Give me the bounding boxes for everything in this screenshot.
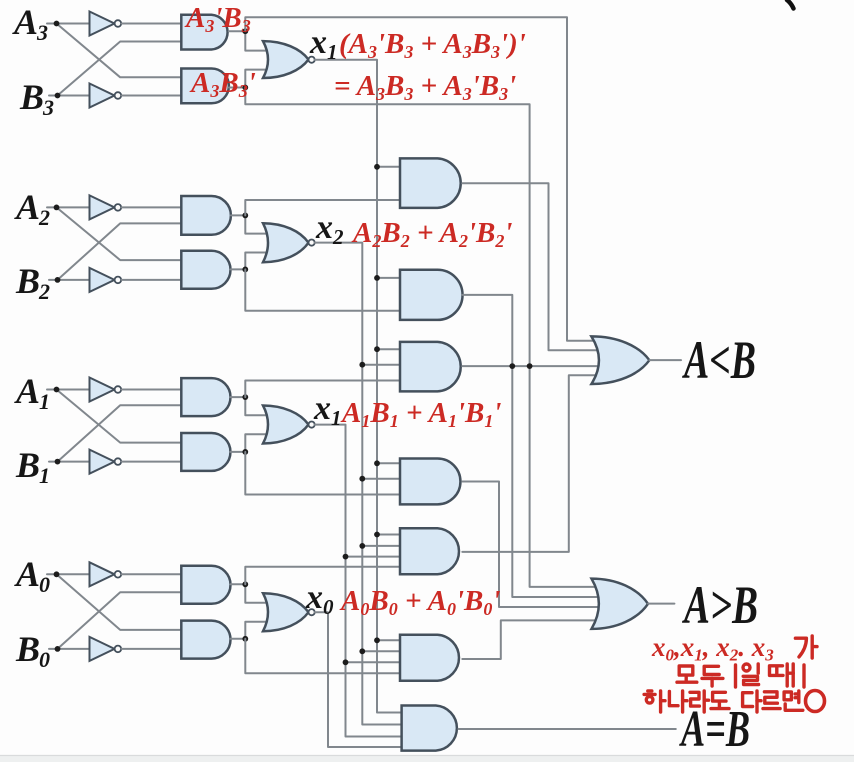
input label A2: [14, 187, 50, 230]
OR gate A>B: [592, 579, 649, 629]
label A>B: [682, 575, 758, 635]
wire A1'B1 to AND G3: [245, 381, 400, 398]
wire G2 output to A>B OR: [463, 295, 600, 597]
node A1: [54, 387, 60, 393]
node A3: [54, 21, 60, 27]
red note line3 do: [711, 692, 729, 708]
AND gate A3B3': [181, 69, 229, 104]
wire A1B1' output: [230, 451, 245, 453]
inverter A3: [90, 12, 122, 36]
wire A3B3' to A>B OR: [245, 88, 599, 587]
node A3B3': [242, 85, 248, 91]
node A1B1': [242, 449, 248, 455]
node B3: [55, 93, 61, 99]
input label B3: [19, 77, 54, 120]
wire A2'B2 output: [231, 214, 245, 216]
corner pen stroke: [787, 0, 794, 9]
wire A3' to AND: [122, 23, 182, 25]
wire B1 cross to upper AND: [58, 405, 182, 461]
wire G5 output to A<B OR: [462, 375, 599, 552]
wire G1 output to A<B OR: [462, 183, 599, 350]
input label A3: [12, 2, 48, 45]
node A2'B2: [242, 213, 248, 219]
red note line3 zero: [806, 691, 825, 712]
wire to NOR input 1: [245, 397, 272, 415]
node crossing dot 1: [509, 363, 515, 369]
AND gate G7 (A=B): [402, 706, 457, 751]
label A=B: [679, 701, 750, 758]
label x0: [305, 579, 334, 619]
node G3 input tap: [359, 362, 365, 368]
node G6 input tap: [359, 648, 365, 654]
red equation x1 line2: [334, 70, 516, 104]
wire B0 to inverter: [49, 648, 90, 650]
wire G3 output to A<B OR: [462, 365, 599, 367]
red note line2 il: [743, 664, 759, 685]
wire B2 to inverter: [49, 279, 90, 281]
svg-text:A3'B3: A3'B3: [184, 2, 251, 36]
wire G3 input from bus: [377, 348, 400, 350]
wire B2' to AND: [122, 279, 182, 281]
node G6 input tap: [343, 659, 349, 665]
input label A1: [14, 371, 49, 414]
AND gate A1'B1: [181, 378, 230, 416]
inverter A0: [90, 562, 122, 586]
NOR gate x3: [263, 41, 315, 78]
wire B3 to inverter: [49, 95, 90, 97]
input label B0: [15, 629, 50, 672]
wire A0' to AND: [122, 573, 182, 575]
wire G4 output to A>B OR: [462, 482, 599, 608]
NOR gate x0: [263, 593, 315, 631]
red note line1 x0,x1,x2,x3: [651, 632, 774, 665]
wire A3'B3 output: [229, 30, 246, 32]
node A2: [54, 205, 60, 211]
wire A0B0' output: [231, 638, 246, 640]
wire B3 cross to upper AND: [58, 42, 182, 96]
wire A=B output: [459, 728, 676, 730]
wire G3 input from bus: [362, 364, 400, 366]
node A1'B1: [242, 394, 248, 400]
label A<B: [682, 330, 756, 390]
wire B2 cross to upper AND: [58, 223, 182, 280]
wire B0 cross to upper AND: [58, 592, 182, 649]
inverter B2: [90, 268, 122, 292]
wire x2 bus: [315, 243, 402, 725]
node A0: [54, 571, 60, 577]
red equation x2: [351, 217, 512, 251]
wire G6 input from bus: [362, 650, 400, 652]
wire A0'B0 to AND G5: [245, 567, 400, 585]
red label A3B3': [189, 67, 256, 101]
wire B3' to AND: [122, 95, 182, 97]
wire A<B output: [649, 359, 681, 361]
input label B1: [15, 445, 49, 488]
red note line3 da: [743, 691, 761, 712]
wire A3'B3 to A<B OR (top rail): [245, 17, 599, 341]
wire G5 input from bus: [346, 556, 401, 558]
wire to NOR input 1: [245, 215, 272, 233]
wire A2 to inverter: [47, 206, 90, 208]
node G4 input tap: [374, 460, 380, 466]
svg-text:A<B: A<B: [682, 330, 756, 390]
red note line2 1a: [734, 665, 737, 687]
AND gate A0'B0: [181, 566, 230, 604]
node G3 input tap: [374, 346, 380, 352]
red equation x1bit: [340, 397, 501, 431]
wire G4 input from bus: [377, 462, 400, 464]
inverter B3: [90, 84, 122, 108]
node G4 input tap: [359, 476, 365, 482]
node G6 input tap: [374, 637, 380, 643]
NOR gate x2: [263, 223, 315, 262]
red equation x0: [339, 585, 500, 619]
wire A0B0' to AND G6: [245, 639, 400, 674]
wire A2'B2 to AND G1: [245, 200, 400, 215]
inverter A2: [90, 195, 122, 219]
wire A0 cross to lower AND: [57, 574, 182, 630]
svg-text:A>B: A>B: [682, 575, 758, 635]
input label A0: [14, 554, 50, 597]
wire G2 input from bus: [377, 277, 400, 279]
node crossing dot 2: [527, 363, 533, 369]
AND gate A2B2': [181, 251, 230, 289]
NOR gate x1: [263, 406, 315, 444]
wire x3 bus: [315, 60, 402, 713]
AND gate A3'B3: [181, 15, 227, 50]
node B1: [55, 459, 61, 465]
wire A1 cross to lower AND: [57, 390, 182, 443]
label x1 (bit3 NOR output): [309, 24, 338, 64]
red note line2 1b: [802, 665, 805, 687]
node G5 input tap: [374, 532, 380, 538]
node B0: [55, 646, 61, 652]
node G5 input tap: [343, 554, 349, 560]
wire A1 to inverter: [47, 389, 90, 391]
wire A0'B0 output: [231, 583, 246, 585]
AND gate A1B1': [181, 433, 230, 471]
wire A1' to AND: [122, 389, 182, 391]
wire G4 input from bus: [362, 478, 400, 480]
wire A2 cross to lower AND: [57, 207, 182, 260]
wire B0' to AND: [122, 648, 182, 650]
AND gate G5: [400, 528, 459, 574]
inverter B1: [90, 450, 122, 474]
inverter B0: [90, 637, 122, 661]
wire x0 bus: [315, 612, 402, 747]
wire B1' to AND: [122, 461, 182, 463]
wire A3 cross to lower AND: [57, 24, 182, 78]
node G2 input tap: [374, 275, 380, 281]
wire G6 input from bus: [377, 639, 400, 641]
wire G1 input from bus: [377, 166, 400, 168]
red note line3 reu: [763, 692, 780, 709]
red note ga: [795, 636, 817, 658]
red note line2 ttae: [770, 664, 794, 686]
red note line2 du: [702, 666, 723, 686]
input label B2: [15, 261, 50, 304]
label x2: [315, 209, 344, 249]
wire G6 input from bus: [346, 661, 401, 663]
wire x1 bus: [315, 425, 402, 737]
wire G5 input from bus: [377, 534, 400, 536]
AND gate A0B0': [181, 621, 230, 659]
node A0'B0: [242, 581, 248, 587]
AND gate A2'B2: [181, 196, 231, 235]
wire G5 input from bus: [362, 545, 400, 547]
OR gate A<B: [591, 336, 649, 384]
wire to NOR input 1: [245, 31, 272, 50]
wire to NOR input 1: [245, 584, 272, 603]
wire to NOR input 2: [245, 70, 272, 88]
node G5 input tap: [359, 543, 365, 549]
wire to NOR input 2: [245, 253, 272, 270]
AND gate G6: [400, 635, 459, 681]
wire to NOR input 2: [245, 622, 272, 639]
wire A1'B1 output: [231, 396, 246, 398]
AND gate G4: [400, 459, 460, 505]
wire A3 to inverter: [47, 23, 90, 25]
red note line3 myeon: [784, 691, 803, 710]
wire A0 to inverter: [47, 573, 90, 575]
wire G6 output to A>B OR: [462, 620, 599, 659]
wire A2B2' output: [231, 268, 246, 270]
wire A3B3' output: [229, 87, 245, 89]
red note line2 mo: [677, 666, 697, 682]
wire to NOR input 2: [245, 434, 272, 452]
AND gate G1: [400, 158, 461, 208]
bottom window strip: [0, 756, 854, 762]
node B2: [55, 277, 61, 283]
label x1 (bit1 NOR output): [313, 390, 342, 430]
inverter A1: [90, 378, 122, 402]
wire A1B1' to AND G4: [245, 452, 400, 495]
node G1 input tap: [374, 164, 380, 170]
red equation x1 line1: [339, 28, 526, 62]
AND gate G3: [400, 342, 461, 392]
wire A2B2' to AND G2: [245, 269, 400, 310]
wire A>B output: [648, 603, 674, 605]
red note line3 ha: [644, 691, 665, 712]
red label A3'B3: [184, 2, 251, 36]
red note line3 na: [669, 691, 687, 712]
node A0B0': [242, 636, 248, 642]
wire B1 to inverter: [49, 461, 90, 463]
node A2B2': [242, 267, 248, 273]
red note line3 ra: [690, 691, 709, 712]
AND gate G2: [400, 270, 463, 320]
svg-text:= A3B3 + A3'B3': = A3B3 + A3'B3': [334, 70, 516, 104]
wire A2' to AND: [122, 206, 182, 208]
node A3'B3: [242, 28, 248, 34]
